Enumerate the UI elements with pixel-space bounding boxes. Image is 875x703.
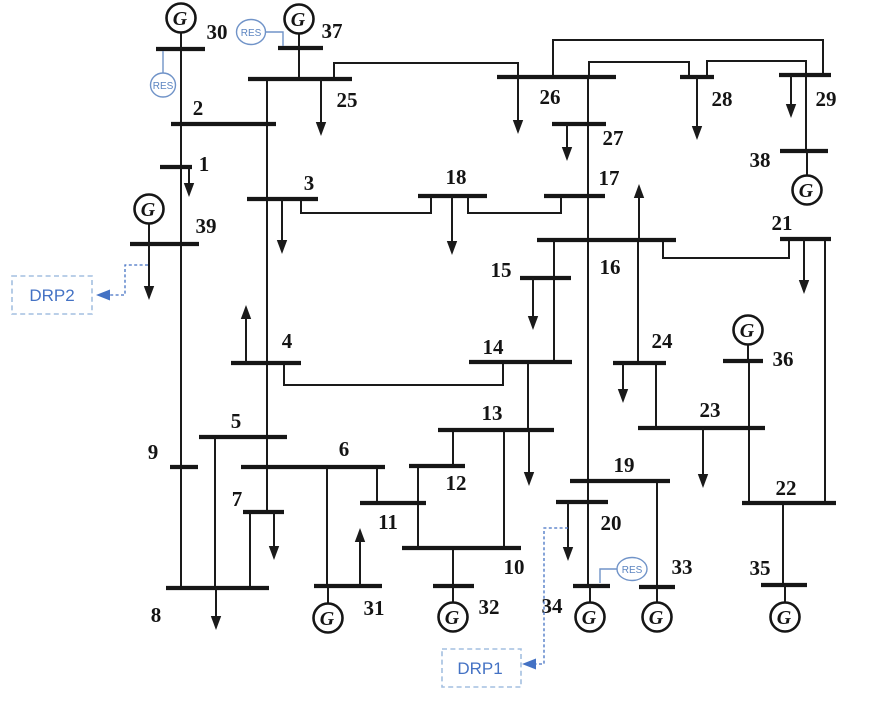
bus 4 xyxy=(231,361,301,365)
bus 17 xyxy=(544,194,605,198)
svg-text:G: G xyxy=(740,320,755,342)
svg-text:G: G xyxy=(141,199,156,221)
svg-text:G: G xyxy=(799,180,814,202)
load arrow bus 29 xyxy=(786,75,796,118)
bus 35 xyxy=(761,583,807,587)
wire 10-13 xyxy=(503,430,505,548)
DRP2 box xyxy=(12,276,92,314)
svg-text:23: 23 xyxy=(700,398,721,422)
DRP2 link to bus 39 load xyxy=(96,265,148,301)
wire 25-26 xyxy=(334,63,518,79)
wire 16-24 xyxy=(637,240,639,363)
wire 26-28 xyxy=(589,62,689,77)
bus 13 xyxy=(438,428,554,432)
bus 10 xyxy=(402,546,521,550)
bus 29 xyxy=(779,73,831,77)
svg-text:RES: RES xyxy=(153,81,174,92)
svg-text:19: 19 xyxy=(614,453,635,477)
svg-text:24: 24 xyxy=(652,329,674,353)
svg-text:G: G xyxy=(445,607,460,629)
svg-text:17: 17 xyxy=(599,166,620,190)
generator G37 xyxy=(285,5,314,49)
bus 12 xyxy=(409,464,465,468)
bus 8 xyxy=(166,586,269,590)
injection arrow bus 31 xyxy=(355,528,365,586)
svg-text:18: 18 xyxy=(446,165,467,189)
wire 30-2-1-39-9-8 (left trunk) xyxy=(180,35,182,588)
svg-text:37: 37 xyxy=(322,19,343,43)
svg-text:30: 30 xyxy=(207,20,228,44)
wire 6-31 xyxy=(326,467,328,586)
bus 23 xyxy=(638,426,765,430)
svg-text:G: G xyxy=(291,9,306,31)
svg-text:38: 38 xyxy=(750,148,771,172)
wire 25-2-3-4-5-6-7 trunk xyxy=(266,79,268,512)
svg-text:G: G xyxy=(582,607,597,629)
wire 26-29 (top) xyxy=(553,40,823,77)
svg-text:4: 4 xyxy=(282,329,293,353)
svg-text:RES: RES xyxy=(622,565,643,576)
svg-text:DRP2: DRP2 xyxy=(29,286,74,305)
bus 19 xyxy=(570,479,670,483)
svg-text:26: 26 xyxy=(540,85,561,109)
wire 6-11 xyxy=(376,467,378,503)
load arrow bus 23 xyxy=(698,428,708,488)
load arrow bus 15 xyxy=(528,278,538,330)
svg-text:12: 12 xyxy=(446,471,467,495)
load arrow bus 26 xyxy=(513,77,523,134)
svg-text:DRP1: DRP1 xyxy=(457,659,502,678)
injection arrow bus 4 xyxy=(241,305,251,363)
bus 5 xyxy=(199,435,287,439)
bus 3 xyxy=(247,197,318,201)
wire 28-29 xyxy=(707,61,806,77)
svg-text:G: G xyxy=(173,8,188,30)
wire 12-11-10 xyxy=(417,466,419,548)
wire 21-22 xyxy=(824,239,826,503)
wire 29-38 xyxy=(805,75,807,151)
DRP1 box xyxy=(442,649,521,687)
RES unit at bus 30 xyxy=(151,51,176,97)
load arrow bus 1 xyxy=(184,167,194,197)
svg-text:35: 35 xyxy=(750,556,771,580)
svg-text:14: 14 xyxy=(483,335,505,359)
wire 10-32 xyxy=(452,548,454,586)
svg-text:20: 20 xyxy=(601,511,622,535)
load arrow bus 3 xyxy=(277,199,287,254)
svg-text:9: 9 xyxy=(148,440,159,464)
svg-text:10: 10 xyxy=(504,555,525,579)
bus 30 xyxy=(156,47,205,51)
bus 39 xyxy=(130,242,199,246)
svg-text:21: 21 xyxy=(772,211,793,235)
load arrow bus 7 xyxy=(269,512,279,560)
wire 36-23-22 xyxy=(748,361,750,503)
bus 26 xyxy=(497,75,616,79)
bus 25 xyxy=(248,77,352,81)
svg-text:G: G xyxy=(777,607,792,629)
load arrow bus 28 xyxy=(692,77,702,140)
generator G38 xyxy=(793,151,822,205)
generator G30 xyxy=(167,4,196,50)
injection arrow bus 16 xyxy=(634,184,644,240)
svg-text:2: 2 xyxy=(193,96,204,120)
load arrow bus 39 xyxy=(144,244,154,300)
bus 37 xyxy=(278,46,323,50)
bus 11 xyxy=(360,501,426,505)
generator G33 xyxy=(643,587,672,632)
bus 34 xyxy=(573,584,610,588)
svg-text:13: 13 xyxy=(482,401,503,425)
bus 21 xyxy=(780,237,831,241)
svg-text:16: 16 xyxy=(600,255,621,279)
svg-text:5: 5 xyxy=(231,409,242,433)
generator G32 xyxy=(439,586,468,632)
bus 28 xyxy=(680,75,714,79)
bus 20 xyxy=(556,500,608,504)
svg-text:25: 25 xyxy=(337,88,358,112)
load arrow bus 8 xyxy=(211,588,221,630)
wire 3-18 xyxy=(301,196,431,213)
load arrow bus 20 xyxy=(563,502,573,561)
wire 5-8 xyxy=(214,437,216,588)
wire 18-17 xyxy=(468,196,561,213)
load arrow bus 24 xyxy=(618,363,628,403)
svg-text:8: 8 xyxy=(151,603,162,627)
bus 2 xyxy=(171,122,276,126)
svg-text:11: 11 xyxy=(378,510,398,534)
bus 24 xyxy=(613,361,666,365)
generator G39 xyxy=(135,195,164,245)
wire 23-24 xyxy=(655,363,657,428)
wire 16-15-14 xyxy=(553,240,555,362)
generator G36 xyxy=(734,316,763,362)
generator G34 xyxy=(576,586,605,632)
wire 7-8 xyxy=(249,512,251,588)
svg-text:6: 6 xyxy=(339,437,350,461)
bus 38 xyxy=(780,149,828,153)
svg-text:36: 36 xyxy=(773,347,794,371)
load arrow bus 13 xyxy=(524,430,534,486)
RES unit at bus 37 xyxy=(237,20,284,47)
svg-text:39: 39 xyxy=(196,214,217,238)
bus 18 xyxy=(418,194,487,198)
wire 12-13 xyxy=(452,430,454,466)
svg-text:RES: RES xyxy=(241,28,262,39)
load arrow bus 27 xyxy=(562,124,572,161)
wire 19-33 xyxy=(656,481,658,587)
bus 7 xyxy=(243,510,284,514)
svg-text:1: 1 xyxy=(199,152,210,176)
svg-text:34: 34 xyxy=(542,594,564,618)
svg-text:7: 7 xyxy=(232,487,243,511)
svg-text:33: 33 xyxy=(672,555,693,579)
bus 27 xyxy=(552,122,606,126)
wire 26-27-17-16-19-20-34 trunk xyxy=(587,77,589,586)
svg-text:22: 22 xyxy=(776,476,797,500)
svg-text:G: G xyxy=(320,608,335,630)
wire 37-25 xyxy=(298,48,300,79)
svg-text:29: 29 xyxy=(816,87,837,111)
bus 6 xyxy=(241,465,385,469)
wire 13-14 xyxy=(527,362,529,430)
bus 1 xyxy=(160,165,192,169)
generator G35 xyxy=(771,585,800,632)
svg-text:3: 3 xyxy=(304,171,315,195)
svg-text:31: 31 xyxy=(364,596,385,620)
svg-text:27: 27 xyxy=(603,126,624,150)
load arrow bus 25 xyxy=(316,79,326,136)
RES unit at bus 34 xyxy=(600,558,647,584)
bus 15 xyxy=(520,276,571,280)
bus 16 xyxy=(537,238,676,242)
bus 22 xyxy=(742,501,836,505)
svg-text:15: 15 xyxy=(491,258,512,282)
svg-text:28: 28 xyxy=(712,87,733,111)
bus 9 xyxy=(170,465,198,469)
bus 36 xyxy=(723,359,763,363)
bus 33 xyxy=(639,585,675,589)
DRP1 link to bus 20 load xyxy=(522,528,568,670)
generator G31 xyxy=(314,586,343,633)
bus 14 xyxy=(469,360,572,364)
svg-text:32: 32 xyxy=(479,595,500,619)
wire 4-14 xyxy=(284,362,503,385)
wire 16-21 xyxy=(663,239,789,258)
svg-text:G: G xyxy=(649,607,664,629)
load arrow bus 21 xyxy=(799,239,809,294)
load arrow bus 18 xyxy=(447,196,457,255)
bus 32 xyxy=(433,584,474,588)
bus 31 xyxy=(314,584,382,588)
wire 22-35 xyxy=(782,503,784,585)
